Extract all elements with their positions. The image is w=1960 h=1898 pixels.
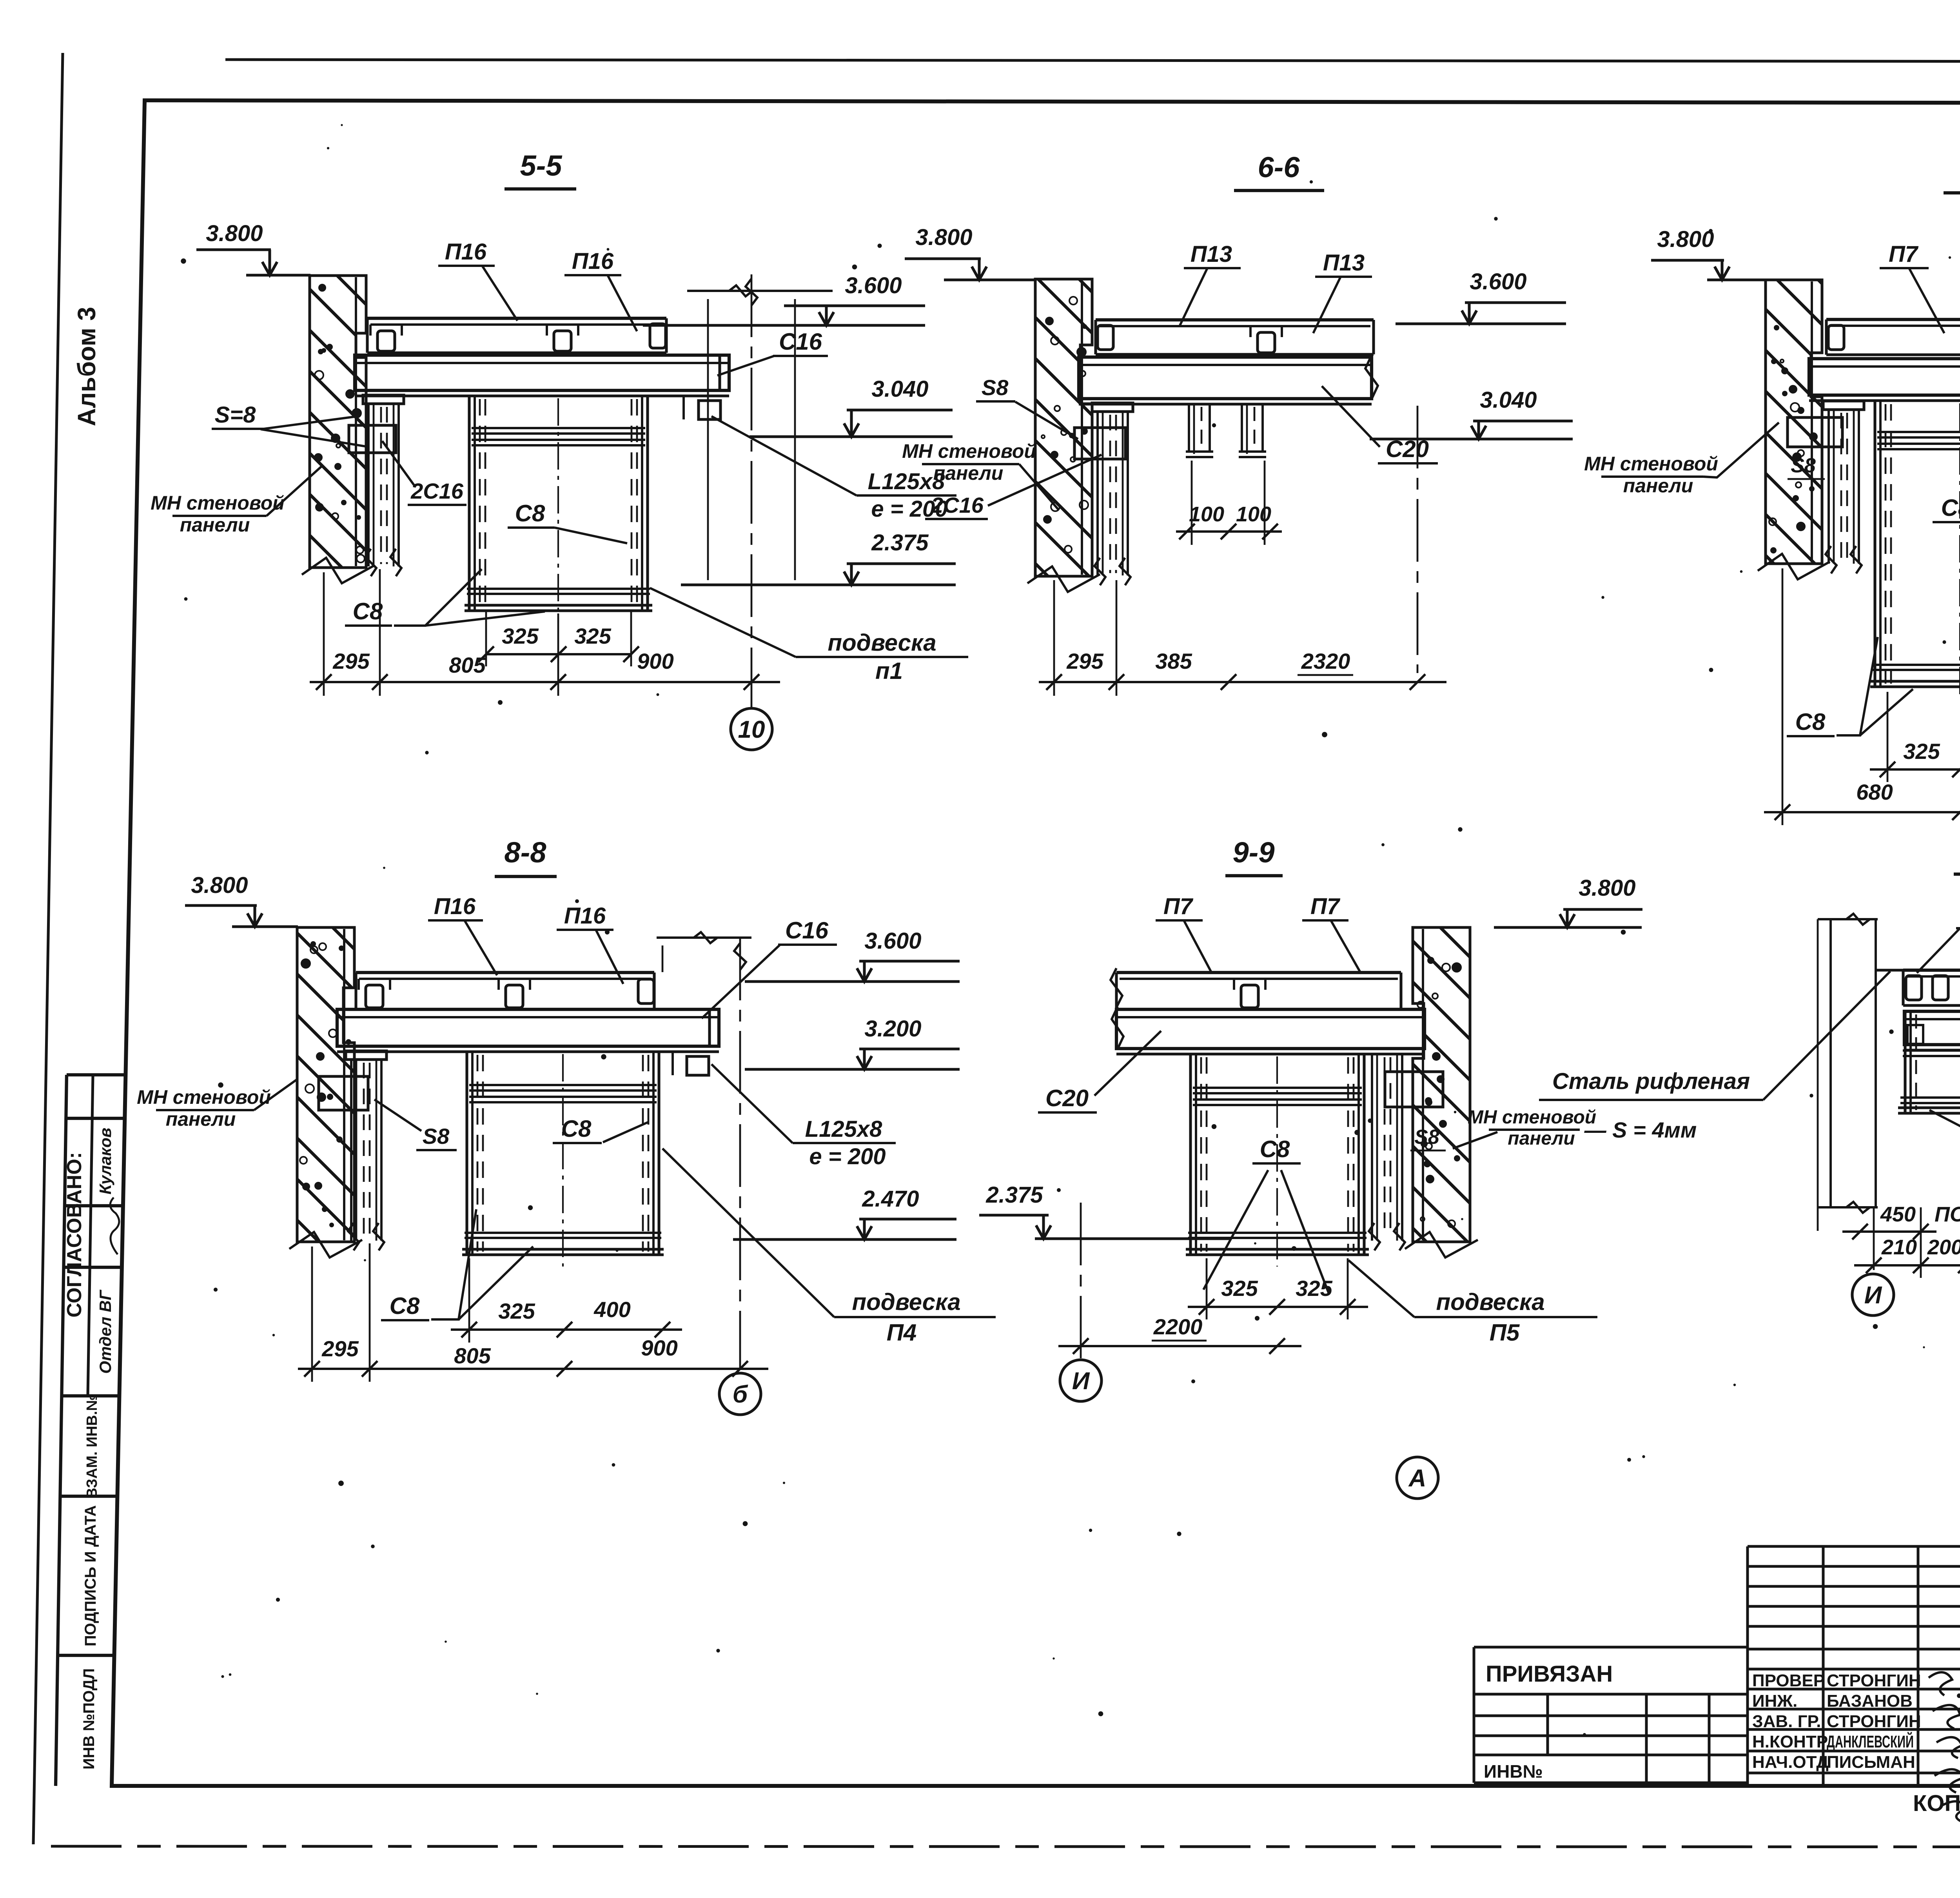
svg-text:панели: панели [180,514,250,536]
deck left break [1111,968,1122,1007]
profiled deck sheet [367,317,666,320]
svg-text:S=8: S=8 [215,402,256,428]
angle bracket L125x8 [687,1056,709,1075]
bracket plate [1074,428,1125,459]
beam (channel) [1116,1009,1425,1049]
svg-text:И: И [1072,1368,1090,1395]
wall panel (hatched concrete) [1766,280,1822,564]
axis line б [739,938,741,1370]
svg-text:С16: С16 [785,917,829,944]
suspended box duct [1873,401,1876,687]
svg-text:100: 100 [1236,503,1271,526]
svg-text:3.040: 3.040 [1480,387,1537,413]
svg-text:панели: панели [166,1108,236,1130]
wall panel (hatched concrete) [297,927,354,1242]
svg-text:панели: панели [933,462,1004,484]
svg-text:МН стеновой: МН стеновой [137,1086,271,1108]
svg-text:3.200: 3.200 [864,1016,921,1042]
svg-text:С8: С8 [390,1293,420,1319]
dim 450 по 10-10 [1842,1230,1936,1233]
dim 325 400 [451,1328,682,1331]
axis line 10 [751,274,753,708]
svg-text:П16: П16 [564,903,606,929]
svg-text:МН стеновой: МН стеновой [1584,453,1718,475]
suspended box duct [465,1052,468,1255]
svg-text:325: 325 [574,624,611,648]
beam (channel) [1079,357,1372,399]
svg-text:ПО 10-10: ПО 10-10 [1935,1203,1960,1226]
deck rib [554,331,571,351]
axis И [1873,1207,1875,1274]
svg-text:ДАНКЛЕВСКИЙ: ДАНКЛЕВСКИЙ [1827,1731,1914,1751]
svg-text:200: 200 [1927,1236,1960,1259]
svg-text:3.800: 3.800 [191,873,248,898]
svg-text:e = 200: e = 200 [809,1144,886,1169]
small box [1904,1011,1906,1113]
svg-text:П13: П13 [1323,250,1365,276]
deck rib [366,985,383,1008]
svg-text:325: 325 [1903,739,1940,764]
svg-text:8-8: 8-8 [505,836,547,869]
svg-text:100: 100 [1189,503,1224,526]
outer sheet edge top [225,60,1960,62]
beam left break [1112,1007,1123,1049]
box stiffener lines [1877,431,1960,433]
svg-text:325: 325 [502,624,539,648]
svg-text:Альбом 3: Альбом 3 [73,307,101,426]
svg-text:450: 450 [1880,1203,1916,1226]
grid circle И [1060,1360,1102,1401]
svg-text:ПРОВЕР: ПРОВЕР [1752,1671,1825,1690]
svg-text:325: 325 [1296,1276,1332,1301]
box bottom plates [465,1232,661,1234]
wall struts 2C16 [1092,403,1133,412]
box centerline [1276,1056,1278,1267]
dim 325 325 [486,653,631,655]
svg-text:L125x8: L125x8 [805,1116,882,1142]
box centerline [1959,403,1960,699]
svg-text:С16: С16 [779,328,822,355]
svg-text:Сталь рифленая: Сталь рифленая [1552,1069,1750,1094]
svg-text:2С16: 2С16 [931,493,984,517]
svg-text:Отдел ВГ: Отдел ВГ [96,1289,114,1374]
svg-text:3.800: 3.800 [915,225,972,250]
svg-text:С8: С8 [353,598,383,624]
box centerline [557,398,559,622]
right struts [1371,1054,1373,1241]
angle bracket L125x8 [699,401,720,419]
svg-text:ИНВ №ПОДЛ: ИНВ №ПОДЛ [80,1668,98,1769]
bracket plate S8 right [1385,1072,1443,1107]
svg-text:385: 385 [1155,649,1192,673]
svg-text:П13: П13 [1191,241,1232,267]
profiled deck sheet [1096,318,1374,321]
svg-text:3.800: 3.800 [1579,875,1635,901]
outer sheet edge left [33,53,63,1844]
svg-text:805: 805 [449,653,486,677]
signature squiggle [110,1198,119,1254]
svg-text:2.470: 2.470 [862,1186,919,1212]
svg-text:295: 295 [332,649,370,673]
svg-text:2.375: 2.375 [871,530,929,555]
box bottom plates [467,588,650,590]
deck left clip [1098,325,1113,350]
svg-text:МН стеновой: МН стеновой [1468,1107,1596,1128]
svg-text:680: 680 [1856,780,1893,804]
column [1829,919,1832,1207]
svg-text:Н.КОНТР: Н.КОНТР [1752,1732,1828,1751]
box stiffener lines [472,427,645,429]
svg-text:325: 325 [1221,1276,1258,1301]
deck right clip [638,979,654,1003]
svg-text:900: 900 [637,649,673,673]
wall struts 2C16 [363,395,404,404]
svg-text:ПОДПИСЬ И ДАТА: ПОДПИСЬ И ДАТА [82,1505,99,1646]
svg-text:СТРОНГИН: СТРОНГИН [1827,1712,1921,1731]
beam (channel) [1809,359,1960,395]
svg-text:2200: 2200 [1153,1314,1203,1339]
svg-text:С8: С8 [1260,1136,1290,1162]
svg-text:S8: S8 [1414,1126,1439,1149]
svg-text:3.600: 3.600 [1470,269,1526,294]
svg-text:325: 325 [498,1299,535,1323]
svg-text:НАЧ.ОТД: НАЧ.ОТД [1752,1753,1829,1772]
bracket plate S8 [1788,417,1842,447]
svg-text:С8: С8 [561,1116,592,1142]
svg-text:П7: П7 [1310,894,1341,919]
suspended box duct [1189,1054,1192,1255]
signature squiggles [1929,1672,1960,1822]
suspended box duct [468,396,470,611]
svg-text:— S = 4мм: — S = 4мм [1584,1118,1697,1142]
dim chain 295 805 900 [310,681,780,683]
svg-text:S8: S8 [982,375,1009,400]
strut bottom break [1826,546,1837,573]
svg-text:И: И [1864,1282,1882,1309]
svg-text:КОПИРОВАЛ: Коршунова: КОПИРОВАЛ: Коршунова [1913,1791,1960,1816]
svg-text:С8: С8 [1941,495,1960,521]
beam end plate [718,355,721,390]
box centerline [562,1054,564,1267]
svg-text:Кулаков: Кулаков [96,1128,114,1194]
svg-text:подвеска: подвеска [828,630,936,656]
beam end plate [708,1009,711,1046]
strut bottom break [348,1223,359,1250]
beam right break [1365,355,1378,399]
svg-text:3.600: 3.600 [864,928,921,954]
svg-text:5-5: 5-5 [520,149,563,182]
svg-text:П5: П5 [1490,1319,1520,1346]
title block attachment table [1474,1647,1748,1783]
wall struts 2C16 [346,1051,387,1060]
clip on box [1907,1025,1923,1044]
svg-text:S8: S8 [1791,454,1816,477]
wall struts 2C16 [1823,401,1864,410]
svg-text:подвеска: подвеска [1436,1289,1544,1315]
svg-text:210: 210 [1881,1236,1917,1259]
svg-text:МН стеновой: МН стеновой [902,440,1036,462]
svg-text:3.040: 3.040 [871,376,928,402]
axis line А [1417,406,1419,673]
svg-text:S8: S8 [423,1124,450,1149]
wall panel (hatched concrete) [1035,279,1092,576]
svg-text:6-6: 6-6 [1258,151,1300,183]
svg-text:панели: панели [1623,475,1693,497]
svg-text:3.800: 3.800 [1657,227,1714,252]
svg-text:С20: С20 [1045,1085,1089,1111]
wall panel (hatched concrete) [1413,927,1470,1242]
title block signature table [1748,1546,1960,1786]
svg-text:9-9: 9-9 [1233,836,1275,869]
grid circle б [719,1373,761,1415]
deck right end clip [650,324,666,348]
svg-text:900: 900 [641,1335,677,1360]
beam (channel) [337,1009,719,1046]
strut bottom break [365,549,376,576]
svg-text:ПРИВЯЗАН: ПРИВЯЗАН [1486,1661,1613,1687]
strut bottom break [1094,558,1105,585]
svg-text:С8: С8 [515,500,545,526]
dim 325 325 [1870,768,1960,771]
svg-text:3.800: 3.800 [206,221,263,246]
grid circle 10 [731,708,772,750]
svg-text:400: 400 [593,1297,630,1322]
box bottom plates [1873,664,1960,666]
wall panel (hatched concrete) [310,276,366,568]
svg-text:ИНЖ.: ИНЖ. [1752,1691,1797,1711]
box stiffener lines [469,1084,657,1086]
svg-text:П7: П7 [1889,241,1919,267]
svg-text:2.375: 2.375 [985,1182,1043,1208]
svg-text:2С16: 2С16 [410,479,464,503]
svg-text:А: А [1408,1465,1426,1492]
dim 2200 [1058,1345,1301,1347]
box bottom plates [1188,1232,1367,1234]
svg-text:СОГЛАСОВАНО:: СОГЛАСОВАНО: [63,1152,86,1317]
svg-text:295: 295 [1066,649,1103,673]
dim chain 295 805 900 [298,1368,768,1370]
dim chain 680 2320 [1764,811,1960,813]
svg-text:П16: П16 [572,249,614,274]
svg-text:ИНВ№: ИНВ№ [1484,1761,1543,1782]
dim chain 295 385 2320 [1039,681,1446,683]
axis line И [1080,1203,1082,1358]
profiled deck sheet [1116,971,1401,974]
bracket plate S8 [349,425,396,453]
dim 210 200 [1854,1264,1960,1267]
outer sheet edge bottom (dashed) [51,1846,1960,1847]
profiled deck sheet [1826,318,1960,321]
svg-text:подвеска: подвеска [852,1289,960,1315]
svg-text:295: 295 [321,1336,359,1361]
svg-text:СТРОНГИН: СТРОНГИН [1827,1671,1921,1690]
svg-text:3.600: 3.600 [845,273,902,298]
deck rib [506,985,523,1008]
svg-text:п1: п1 [875,658,903,684]
svg-text:ЗАВ. ГР.: ЗАВ. ГР. [1752,1712,1821,1731]
svg-text:б: б [733,1381,748,1408]
bracket plate S8 [319,1076,368,1110]
sidebar stamp column [56,1075,67,1786]
dim 100 100 [1176,530,1282,533]
svg-text:П16: П16 [434,894,476,919]
svg-text:П4: П4 [887,1319,917,1346]
svg-text:БАЗАНОВ: БАЗАНОВ [1827,1691,1913,1711]
dim 325 325 [1188,1306,1368,1308]
svg-text:МН стеновой: МН стеновой [151,492,285,514]
svg-text:2320: 2320 [1301,649,1350,673]
beam (channel) [355,355,729,390]
box stiffener lines [1193,1087,1362,1089]
svg-text:С8: С8 [1795,709,1826,735]
hanging stubs [1188,405,1190,452]
svg-text:ПИСЬМАН: ПИСЬМАН [1827,1753,1915,1772]
deck rib [1258,332,1275,353]
profiled deck sheet [1903,969,1960,972]
far lines top [657,936,751,939]
deck rib [1241,985,1258,1008]
svg-text:П16: П16 [445,239,487,265]
deck left double clip [1906,976,1922,1000]
svg-text:П7: П7 [1163,894,1194,919]
svg-text:панели: панели [1508,1128,1575,1149]
svg-text:805: 805 [454,1343,491,1368]
far column lines [687,290,833,292]
svg-text:10: 10 [738,716,765,743]
deck left clip [1828,325,1844,350]
beam (channel) [1904,1011,1960,1045]
profiled deck sheet [356,971,654,974]
deck rib [377,331,395,351]
svg-text:ВЗАМ. ИНВ.№: ВЗАМ. ИНВ.№ [84,1394,100,1499]
grid circle А [1397,1457,1438,1499]
